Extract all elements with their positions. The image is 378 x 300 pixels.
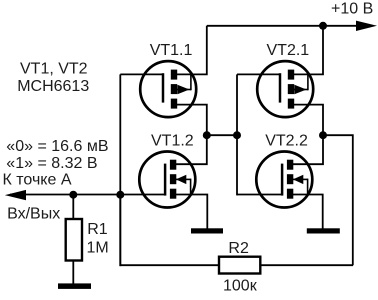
node A1 junction dot [203, 131, 211, 139]
wire VT2.2 drain to node A2 [293, 135, 323, 164]
label +10 В [331, 1, 373, 18]
input arrow [5, 190, 26, 200]
svg-text:«0» = 16.6 мВ: «0» = 16.6 мВ [6, 138, 108, 155]
svg-text:К точке А: К точке А [3, 171, 72, 188]
wire input line [10, 194, 166, 196]
svg-text:R2: R2 [228, 240, 249, 257]
wire R2 to feedback vertical [260, 264, 353, 266]
label Вх/Вых [7, 206, 60, 223]
label R1 [87, 221, 108, 238]
svg-text:+10 В: +10 В [331, 1, 373, 18]
svg-text:VT1.1: VT1.1 [150, 42, 193, 59]
label VT1.2 [151, 133, 194, 150]
label VT2.2 [265, 133, 308, 150]
wire +10V rail [207, 25, 362, 27]
transistor VT2.1 (p-channel MOSFET) [257, 61, 313, 117]
node junction +10V / VT2 drain [319, 22, 327, 30]
label «1» = 8.32 В [6, 155, 97, 172]
svg-text:1M: 1M [87, 240, 109, 257]
transistor VT2.2 (n-channel MOSFET) [256, 152, 312, 208]
label «0» = 16.6 мВ [6, 138, 108, 155]
wire R1 to ground [72, 261, 74, 285]
label 1M [87, 240, 109, 257]
node A2 junction dot [319, 131, 327, 139]
wire VT1.1 drain to node A1 [177, 105, 207, 136]
wire VT1 gate bus vertical [119, 74, 121, 266]
svg-text:VT2.1: VT2.1 [267, 42, 310, 59]
wire VT1.1 gate lead [120, 73, 164, 75]
wire VT2.1 source to rail [294, 26, 323, 75]
node input / gate bus junction dot [116, 191, 124, 199]
svg-text:«1» = 8.32 В: «1» = 8.32 В [6, 155, 97, 172]
transistor VT1.1 (p-channel MOSFET) [140, 61, 196, 117]
wire VT2.2 source to ground [293, 195, 323, 229]
wire gate bus to R2 [120, 195, 219, 265]
label VT1.1 [150, 42, 193, 59]
wire node A2 to feedback vertical [323, 135, 353, 265]
label MCH6613 [17, 78, 89, 95]
svg-text:Вх/Вых: Вх/Вых [7, 206, 60, 223]
resistor R1 [66, 219, 82, 261]
wire VT1.1 source to +10V rail [177, 26, 207, 75]
label VT1, VT2 [20, 61, 88, 78]
wire input to R1 [72, 195, 74, 220]
label VT2.1 [267, 42, 310, 59]
wire VT2.2 gate lead [237, 194, 283, 196]
node input / R1 junction dot [69, 191, 77, 199]
svg-text:R1: R1 [87, 221, 108, 238]
ground under VT1.2 [191, 228, 223, 233]
svg-text:100к: 100к [223, 278, 258, 295]
ground under R1 [58, 283, 91, 289]
wire VT2.1 gate lead [237, 73, 281, 75]
svg-text:VT1.2: VT1.2 [151, 133, 194, 150]
svg-text:MCH6613: MCH6613 [17, 78, 89, 95]
transistor VT1.2 (n-channel MOSFET) [139, 152, 195, 208]
+10V arrow [356, 21, 377, 31]
label 100к [223, 278, 258, 295]
wire VT1.2 drain to node A1 [176, 135, 207, 164]
svg-text:VT2.2: VT2.2 [265, 133, 308, 150]
ground under VT2.2 [307, 228, 340, 233]
label К точке А [3, 171, 72, 188]
wire VT2 gate bus vertical [236, 74, 238, 195]
node VT2 gate bus junction dot [233, 131, 241, 139]
wire VT1.2 source to ground [176, 195, 207, 229]
wire VT1 output link to VT2 gate bus [207, 134, 237, 136]
resistor R2 [219, 257, 260, 274]
wire VT2.1 drain to node A2 [294, 105, 323, 136]
label R2 [228, 240, 249, 257]
svg-text:VT1, VT2: VT1, VT2 [20, 61, 88, 78]
